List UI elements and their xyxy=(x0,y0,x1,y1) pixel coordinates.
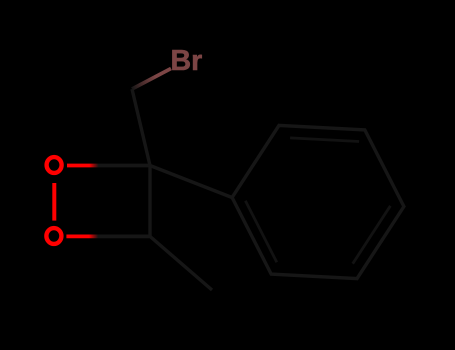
svg-text:Br: Br xyxy=(171,45,203,77)
